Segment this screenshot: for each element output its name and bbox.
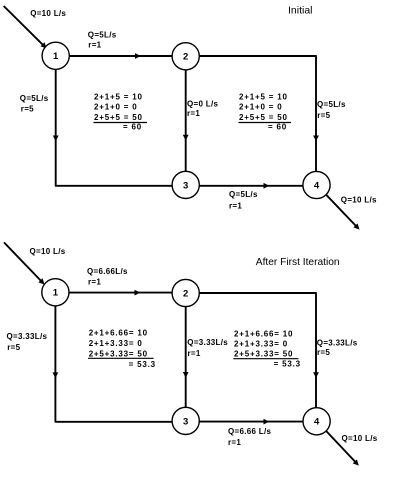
svg-text:2+1+0 = 0: 2+1+0 = 0 — [239, 103, 282, 112]
svg-text:= 60: = 60 — [123, 122, 142, 131]
svg-text:Q=0 L/s: Q=0 L/s — [187, 100, 218, 109]
svg-text:2+1+5 = 10: 2+1+5 = 10 — [239, 92, 288, 101]
svg-text:4: 4 — [314, 180, 320, 191]
svg-text:1: 1 — [53, 288, 59, 299]
svg-text:r=5: r=5 — [317, 348, 330, 357]
svg-text:Q=5L/s: Q=5L/s — [88, 31, 117, 40]
svg-text:= 60: = 60 — [268, 122, 287, 131]
svg-text:2+5+3.33= 50: 2+5+3.33= 50 — [234, 349, 293, 358]
svg-text:Q=3.33L/s: Q=3.33L/s — [7, 332, 48, 341]
svg-text:Q=10 L/s: Q=10 L/s — [30, 9, 66, 18]
svg-text:Q=6.66L/s: Q=6.66L/s — [87, 267, 128, 276]
svg-text:2+1+5 = 10: 2+1+5 = 10 — [94, 92, 143, 101]
svg-text:2+5+5 = 50: 2+5+5 = 50 — [94, 113, 143, 122]
svg-text:4: 4 — [314, 417, 320, 428]
svg-text:2+5+3.33= 50: 2+5+3.33= 50 — [89, 349, 148, 358]
svg-text:Q=10 L/s: Q=10 L/s — [30, 247, 66, 256]
svg-text:r=1: r=1 — [88, 278, 101, 287]
svg-text:Q=10 L/s: Q=10 L/s — [341, 196, 377, 205]
svg-text:r=5: r=5 — [317, 111, 330, 120]
svg-text:2: 2 — [183, 288, 188, 299]
svg-text:r=1: r=1 — [229, 201, 242, 210]
svg-text:2: 2 — [183, 52, 188, 63]
svg-text:3: 3 — [183, 180, 188, 191]
svg-text:After First Iteration: After First Iteration — [256, 257, 340, 268]
svg-text:r=1: r=1 — [187, 109, 200, 118]
svg-text:= 53.3: = 53.3 — [274, 359, 301, 368]
svg-text:Initial: Initial — [288, 5, 313, 17]
svg-text:Q=10 L/s: Q=10 L/s — [342, 434, 378, 443]
svg-text:Q=5L/s: Q=5L/s — [229, 190, 258, 199]
svg-text:2+1+3.33= 0: 2+1+3.33= 0 — [89, 339, 143, 348]
svg-text:2+1+6.66= 10: 2+1+6.66= 10 — [234, 330, 293, 339]
svg-text:1: 1 — [53, 51, 59, 62]
svg-text:2+1+6.66= 10: 2+1+6.66= 10 — [89, 329, 148, 338]
svg-text:r=1: r=1 — [188, 349, 201, 358]
svg-text:r=5: r=5 — [21, 105, 34, 114]
svg-text:r=1: r=1 — [228, 438, 241, 447]
svg-text:r=1: r=1 — [88, 41, 101, 50]
svg-text:2+1+3.33= 0: 2+1+3.33= 0 — [234, 339, 288, 348]
svg-text:Q=5L/s: Q=5L/s — [317, 100, 346, 109]
svg-text:Q=6.66 L/s: Q=6.66 L/s — [228, 427, 271, 436]
svg-text:2+5+5 = 50: 2+5+5 = 50 — [239, 113, 288, 122]
svg-text:3: 3 — [183, 416, 188, 427]
svg-text:r=5: r=5 — [7, 343, 20, 352]
svg-text:2+1+0 = 0: 2+1+0 = 0 — [94, 103, 137, 112]
svg-text:Q=3.33L/s: Q=3.33L/s — [317, 338, 358, 347]
svg-text:Q=5L/s: Q=5L/s — [20, 94, 49, 103]
svg-text:Q=3.33L/s: Q=3.33L/s — [187, 338, 228, 347]
svg-text:= 53.3: = 53.3 — [129, 360, 156, 369]
